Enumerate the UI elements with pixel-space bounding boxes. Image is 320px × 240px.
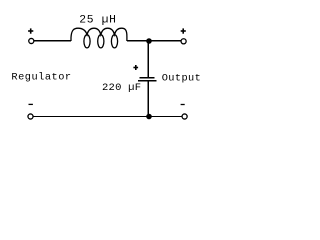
plus sign top-left bbox=[28, 28, 33, 33]
capacitor C1 220 uF plates bbox=[138, 78, 156, 81]
terminal circle top-left bbox=[29, 38, 34, 43]
svg-text:Output: Output bbox=[162, 72, 201, 84]
minus sign bottom-left bbox=[29, 103, 33, 105]
plus sign capacitor bbox=[133, 65, 138, 70]
wire top-right segment bbox=[127, 40, 181, 42]
svg-text:Regulator: Regulator bbox=[11, 72, 71, 84]
capacitor wire upper bbox=[147, 40, 149, 77]
junction node top bbox=[146, 38, 152, 44]
capacitor wire lower bbox=[147, 82, 149, 117]
terminal circle bottom-right bbox=[182, 114, 187, 119]
wire bottom bbox=[33, 116, 182, 118]
terminal circle bottom-left bbox=[28, 114, 33, 119]
wire top-left segment bbox=[34, 40, 71, 42]
svg-text:220 µF: 220 µF bbox=[102, 82, 141, 94]
minus sign bottom-right bbox=[181, 104, 185, 106]
inductor L1 25 uH bbox=[71, 28, 127, 48]
svg-text:25 µH: 25 µH bbox=[79, 14, 116, 26]
terminal circle top-right bbox=[181, 39, 186, 44]
plus sign top-right bbox=[181, 28, 186, 33]
junction node bottom bbox=[146, 114, 152, 120]
